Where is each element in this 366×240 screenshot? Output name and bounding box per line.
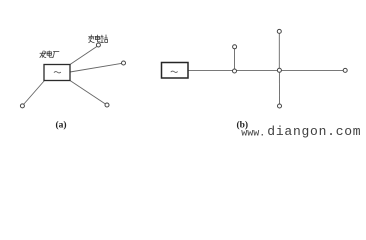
wire generator to node A1	[24, 81, 45, 105]
svg-text:(a): (a)	[55, 119, 66, 130]
end node B4	[343, 68, 347, 72]
main feeder wire	[188, 69, 343, 71]
drop wire down at cross junction	[278, 70, 280, 104]
bottom node B3	[278, 104, 282, 108]
wire generator to node A4	[70, 81, 106, 105]
AC source tilde in G2	[171, 71, 178, 72]
branch riser wire 1	[234, 49, 236, 71]
branch node top B1	[233, 45, 237, 49]
load node A1	[20, 104, 24, 108]
riser wire up at cross junction	[278, 33, 280, 70]
wire generator to node A3	[70, 63, 122, 72]
tap node on feeder	[233, 69, 237, 73]
generator box G1 (power plant)	[44, 65, 70, 81]
wire generator to substation node	[70, 46, 97, 64]
AC source tilde in G1	[54, 72, 61, 73]
node A3	[122, 61, 126, 65]
svg-text:diangon.com: diangon.com	[267, 124, 361, 139]
junction node at cross	[277, 68, 281, 72]
generator box G2	[162, 63, 189, 79]
label 发电厂 (power plant)	[40, 51, 59, 58]
substation node	[96, 43, 100, 47]
label 变电站 (substation)	[89, 35, 108, 43]
node A4	[105, 103, 109, 107]
svg-text:www.: www.	[241, 128, 265, 139]
top node B2	[277, 29, 281, 33]
